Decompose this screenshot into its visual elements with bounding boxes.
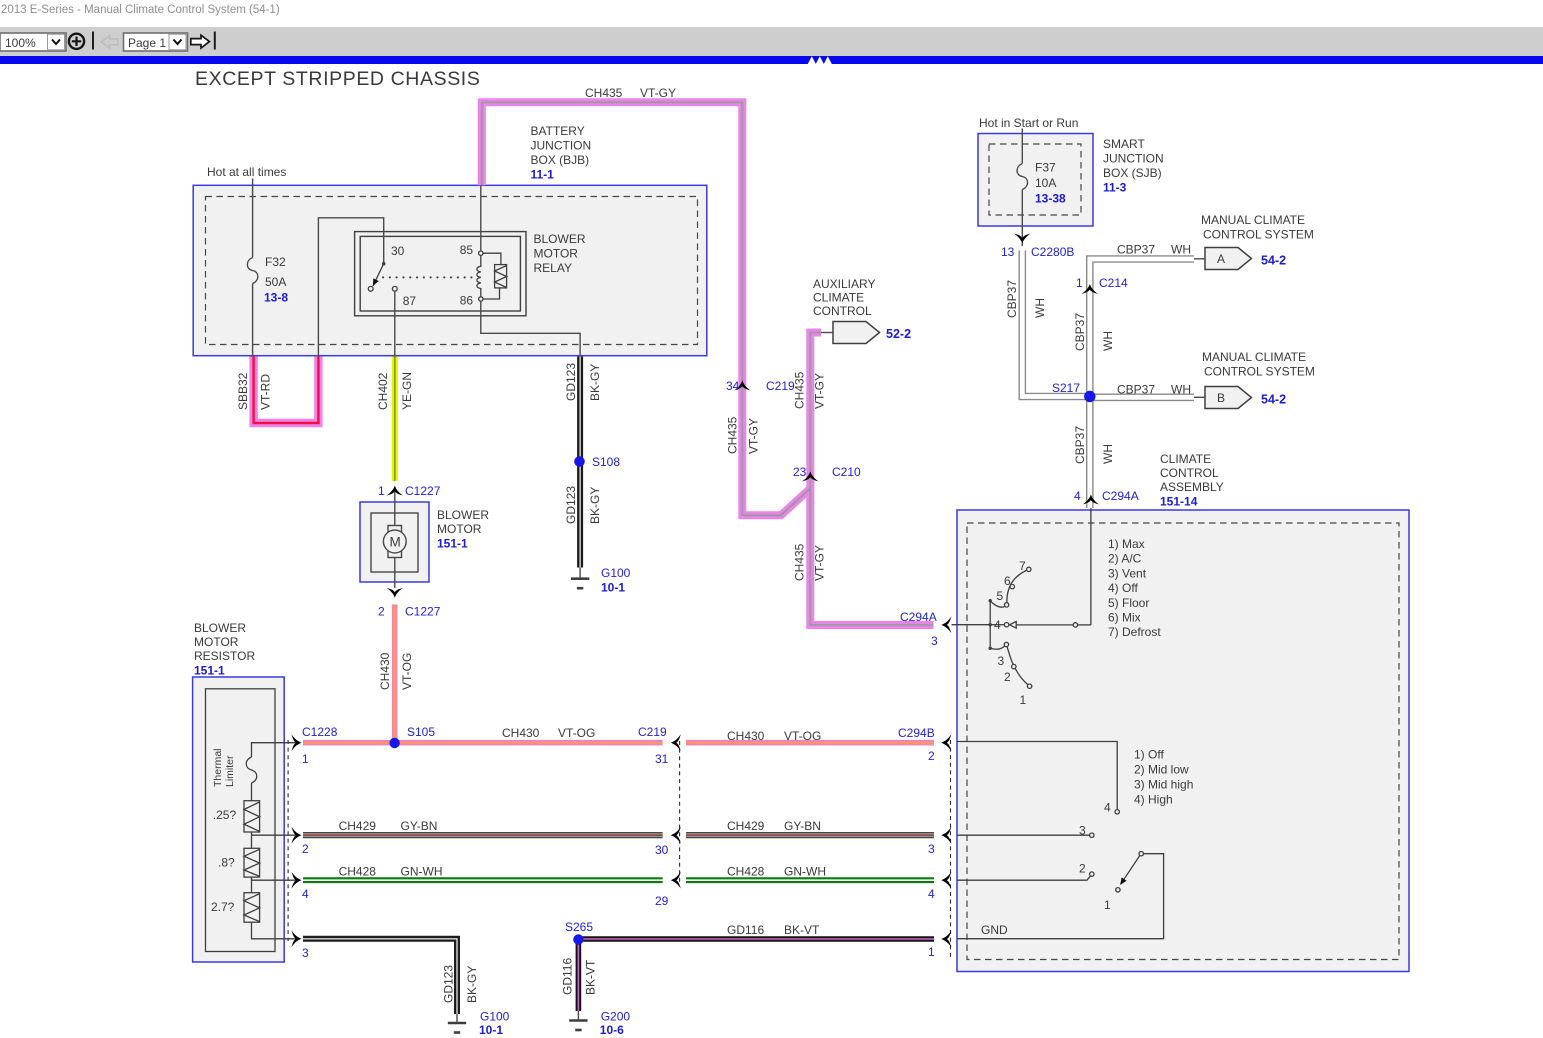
svg-text:10-6: 10-6 [600, 1023, 624, 1037]
label BLOWER MOTOR RESISTOR 151-1 [194, 621, 255, 678]
page combobox [124, 33, 188, 51]
fan switch contact 2 [1090, 872, 1094, 876]
viewer title bar [1, 4, 280, 16]
svg-text:C1227: C1227 [405, 605, 441, 619]
svg-text:WH: WH [1033, 298, 1047, 318]
connector arrow 1 C214 [1081, 284, 1098, 294]
rotated labels GD123 BK-GY bottom [442, 965, 479, 1003]
wire CH428 GN-WH C1228 to C219 [303, 877, 663, 883]
rotated labels CBP37 WH segment 2 [1073, 313, 1115, 351]
mode switch small terminal circle [1073, 623, 1077, 627]
label CH429 GY-BN segment 2 [727, 819, 821, 833]
svg-text:MOTOR: MOTOR [194, 635, 239, 649]
svg-text:1: 1 [928, 945, 935, 959]
svg-text:C2280B: C2280B [1031, 245, 1074, 259]
fan switch pin 2 line to contact 4 [957, 742, 1117, 810]
svg-text:34: 34 [726, 379, 740, 393]
wire GD123 BK-GY resistor pin 3 to G100 [303, 939, 457, 1014]
blue divider bar [0, 56, 1543, 64]
svg-text:C294B: C294B [898, 726, 935, 740]
mode switch arc 5-6-7 [1007, 570, 1027, 603]
svg-text:54-2: 54-2 [1261, 393, 1286, 407]
svg-text:4: 4 [302, 887, 309, 901]
label C1228 and pin numbers [302, 725, 338, 960]
relay suppression resistor connection 85 side [483, 253, 501, 264]
svg-text:VT-OG: VT-OG [558, 726, 595, 740]
wire CBP37 WH connector A to S217 through C214 [1090, 259, 1194, 397]
wire GD123 BK-GY relay 86 to G100 [577, 357, 583, 568]
blower motor box outline [360, 502, 429, 582]
fuse F32 feed line [252, 179, 254, 258]
svg-text:VT-RD: VT-RD [259, 374, 273, 410]
svg-text:GY-BN: GY-BN [401, 819, 438, 833]
svg-text:2: 2 [928, 749, 935, 763]
svg-text:3) Vent: 3) Vent [1108, 566, 1147, 580]
mode function list [1108, 537, 1161, 639]
svg-text:10A: 10A [1035, 176, 1056, 190]
label 13 C2280B [1001, 245, 1074, 259]
relay contact 87 [392, 286, 397, 291]
label CH430 VT-OG segment 2 [727, 729, 821, 743]
blower motor M circle [383, 530, 406, 553]
wire relay 87 to CH402 [394, 291, 396, 356]
svg-text:BK-VT: BK-VT [584, 959, 598, 995]
svg-text:BLOWER: BLOWER [437, 508, 489, 522]
svg-text:S105: S105 [407, 725, 435, 739]
svg-text:RESISTOR: RESISTOR [194, 649, 255, 663]
svg-text:.25?: .25? [213, 808, 237, 822]
svg-text:1: 1 [378, 484, 385, 498]
mode switch stem to contact 5 [990, 601, 1005, 607]
junction S105 [389, 738, 399, 748]
svg-text:3: 3 [928, 842, 935, 856]
connector arrow C219 pin 30 [671, 827, 681, 844]
connector arrow C1228 pin 3 [292, 930, 302, 947]
relay coil pin 86 contact [479, 297, 483, 301]
svg-text:C1227: C1227 [405, 484, 441, 498]
wire CH428 GN-WH C219 to C294B [686, 877, 934, 883]
svg-text:S265: S265 [565, 920, 593, 934]
svg-text:GD123: GD123 [442, 965, 456, 1003]
svg-text:2: 2 [302, 842, 309, 856]
smart junction box SJB outline [978, 134, 1093, 227]
svg-text:1: 1 [1104, 898, 1111, 912]
label BATTERY JUNCTION BOX [531, 124, 592, 182]
svg-text:CH430: CH430 [378, 652, 392, 690]
svg-text:MOTOR: MOTOR [534, 247, 579, 261]
wire CH430 VT-OG C1228 to C219 [303, 740, 663, 746]
svg-text:BK-GY: BK-GY [588, 487, 602, 524]
fan switch wiper arm [1121, 855, 1140, 884]
svg-text:C210: C210 [832, 465, 861, 479]
rotated label Thermal Limiter [212, 748, 236, 787]
svg-text:SMART: SMART [1103, 137, 1145, 151]
resistor R2 .8 ohm [244, 848, 260, 877]
mode switch output to C294A pin 3 [952, 624, 991, 626]
svg-text:11-3: 11-3 [1103, 181, 1127, 195]
fan switch contact 4 [1115, 810, 1119, 814]
svg-text:CH430: CH430 [502, 726, 540, 740]
svg-text:GN-WH: GN-WH [401, 865, 443, 879]
svg-text:CBP37: CBP37 [1117, 243, 1155, 257]
ground G100 under S108 [571, 568, 589, 589]
svg-text:31: 31 [655, 752, 669, 766]
svg-text:RELAY: RELAY [534, 261, 572, 275]
svg-text:GND: GND [981, 923, 1008, 937]
label CH430 VT-OG segment 1 [502, 726, 595, 740]
svg-text:MANUAL CLIMATE: MANUAL CLIMATE [1202, 350, 1306, 364]
label 4 C294A [1074, 489, 1139, 503]
wire CH429 GY-BN C1228 to C219 [303, 832, 663, 838]
battery junction box BJB outline [193, 185, 707, 355]
svg-text:WH: WH [1101, 444, 1115, 464]
connector arrow C1228 pin 2 [292, 827, 302, 844]
label CH429 GY-BN segment 1 [339, 819, 438, 833]
fan switch contact 3 [1090, 833, 1094, 837]
link R3 to pin 3 [252, 922, 298, 939]
wire CH430 VT-OG motor to S105 [392, 605, 398, 744]
wire CBP37 WH S217 to connector B [1090, 393, 1194, 401]
label C294A 3 [900, 610, 938, 648]
connector arrow C219 pin 29 [671, 872, 681, 889]
fuse F32 output line [252, 284, 254, 357]
relay U1 outline [355, 232, 526, 316]
svg-text:BATTERY: BATTERY [531, 124, 585, 138]
svg-text:GD123: GD123 [564, 486, 578, 524]
svg-text:CH435: CH435 [793, 371, 807, 409]
svg-text:GY-BN: GY-BN [784, 819, 821, 833]
rotated labels CH435 VT-GY below C210 [793, 543, 827, 581]
svg-text:CBP37: CBP37 [1073, 426, 1087, 464]
wire CH435 VT-GY branch from auxiliary climate control through C210 [810, 333, 821, 489]
mode switch contact 5 [1004, 603, 1008, 607]
fan switch position labels [1079, 801, 1111, 913]
mode switch contact 6 [1010, 584, 1014, 588]
rotated labels GD116 BK-VT [561, 958, 598, 995]
label fuse F37 [1035, 161, 1066, 206]
svg-text:BK-GY: BK-GY [465, 966, 479, 1003]
ground G100 under resistor pin 3 [448, 1014, 466, 1033]
relay pin numbers [391, 243, 473, 308]
mode switch stem to contact 3 [990, 646, 1004, 649]
fan switch pin 4 line [957, 876, 1090, 880]
svg-text:CONTROL SYSTEM: CONTROL SYSTEM [1203, 228, 1314, 242]
connector arrow 2 C1227 [386, 588, 403, 598]
connector arrow C294A pin 3 [941, 617, 951, 634]
svg-text:23: 23 [793, 465, 807, 479]
svg-text:4) Off: 4) Off [1108, 581, 1138, 595]
svg-text:WH: WH [1171, 243, 1191, 257]
resistor value labels [211, 808, 236, 914]
svg-text:CLIMATE: CLIMATE [1160, 452, 1211, 466]
svg-text:VT-OG: VT-OG [784, 729, 821, 743]
label CLIMATE CONTROL ASSEMBLY [1160, 452, 1224, 509]
svg-text:13-8: 13-8 [264, 291, 288, 305]
svg-text:CH428: CH428 [727, 865, 765, 879]
svg-text:151-1: 151-1 [437, 537, 468, 551]
label G100 10-1 right of S108 [601, 566, 631, 595]
svg-text:CH435: CH435 [793, 543, 807, 581]
wire SBB32 VT-RD fuse to relay pin 30 [254, 357, 319, 424]
svg-text:2) A/C: 2) A/C [1108, 552, 1142, 566]
svg-text:5) Floor: 5) Floor [1108, 596, 1149, 610]
back page arrow (disabled) [101, 36, 118, 48]
svg-text:C219: C219 [638, 725, 667, 739]
junction S108 [574, 456, 585, 467]
svg-text:EXCEPT STRIPPED CHASSIS: EXCEPT STRIPPED CHASSIS [195, 68, 480, 90]
label 1 C214 [1076, 276, 1128, 290]
svg-text:VT-OG: VT-OG [400, 653, 414, 690]
rotated labels CBP37 WH segment 1 [1005, 280, 1047, 318]
svg-text:1) Max: 1) Max [1108, 537, 1145, 551]
svg-text:5: 5 [997, 589, 1004, 603]
label 2 C1227 [378, 605, 441, 619]
svg-text:BOX (BJB): BOX (BJB) [531, 153, 590, 167]
svg-text:3: 3 [931, 634, 938, 648]
mode switch position labels [994, 559, 1027, 707]
svg-text:CH430: CH430 [727, 729, 765, 743]
svg-text:Hot at all times: Hot at all times [207, 165, 286, 179]
relay coil [477, 255, 481, 296]
svg-text:CH429: CH429 [339, 819, 377, 833]
svg-text:G100: G100 [480, 1010, 510, 1024]
svg-text:S217: S217 [1052, 381, 1080, 395]
connector arrow C294B pin 2 [941, 734, 951, 751]
svg-text:AUXILIARY: AUXILIARY [813, 277, 875, 291]
svg-text:13: 13 [1001, 245, 1015, 259]
svg-text:GD116: GD116 [561, 958, 575, 995]
connector arrow C294B pin 1 [941, 931, 951, 948]
svg-text:JUNCTION: JUNCTION [531, 139, 592, 153]
label CH435 VT-GY top [585, 86, 676, 100]
wire relay pin 30 to SBB32 [318, 218, 383, 356]
svg-text:C219: C219 [766, 379, 795, 393]
label CH428 GN-WH segment 1 [339, 865, 443, 879]
svg-text:CH429: CH429 [727, 819, 765, 833]
svg-text:151-1: 151-1 [194, 664, 225, 678]
svg-text:BLOWER: BLOWER [194, 621, 246, 635]
label SMART JUNCTION BOX [1103, 137, 1164, 195]
svg-text:WH: WH [1101, 331, 1115, 351]
link R1 to R2 and pin 2 tap [252, 832, 298, 848]
svg-text:S108: S108 [592, 455, 620, 469]
connector arrow B to 54-2 [1194, 387, 1252, 409]
label GD116 BK-VT segment [727, 923, 820, 937]
wire BJB entry to relay coil pin 85 [480, 185, 482, 251]
svg-text:BOX (SJB): BOX (SJB) [1103, 166, 1162, 180]
svg-text:C294A: C294A [900, 610, 937, 624]
wire GD116 BK-VT S265 to C294B pin 1 [580, 936, 934, 942]
svg-text:F37: F37 [1035, 161, 1056, 175]
svg-text:BK-VT: BK-VT [784, 923, 820, 937]
fuse F32 element [247, 258, 258, 284]
fan switch wiper top contact [1139, 852, 1143, 856]
blower motor brush block [388, 526, 402, 558]
connector arrow C294B pin 4 [941, 872, 951, 889]
svg-text:CONTROL: CONTROL [1160, 466, 1219, 480]
fan switch wiper bottom contact [1116, 888, 1120, 892]
svg-text:11-1: 11-1 [531, 168, 555, 182]
connector arrow 1 C1227 [386, 486, 403, 496]
svg-text:2) Mid low: 2) Mid low [1134, 763, 1189, 777]
thermal limiter element [246, 757, 257, 783]
relay switch arm [373, 264, 384, 286]
mode switch contact 4 [1004, 623, 1008, 627]
connector C219 dashed boundary [679, 741, 681, 882]
relay switch arm arrowhead [373, 278, 379, 286]
mode switch bracket [989, 601, 991, 649]
label AUXILIARY CLIMATE CONTROL [813, 277, 875, 318]
svg-text:10-1: 10-1 [479, 1023, 503, 1037]
svg-text:4) High: 4) High [1134, 793, 1173, 807]
svg-text:30: 30 [655, 843, 669, 857]
svg-text:CONTROL SYSTEM: CONTROL SYSTEM [1204, 365, 1315, 379]
svg-text:6) Mix: 6) Mix [1108, 611, 1141, 625]
wire GD116 BK-VT S265 to G200 [576, 939, 582, 1011]
svg-text:86: 86 [460, 294, 474, 308]
svg-text:WH: WH [1171, 383, 1191, 397]
connector C294B dashed boundary [950, 740, 952, 957]
svg-text:CLIMATE: CLIMATE [813, 291, 864, 305]
fan switch ground path to GND pin [957, 854, 1164, 939]
svg-text:54-2: 54-2 [1261, 254, 1286, 268]
svg-text:MOTOR: MOTOR [437, 522, 482, 536]
svg-text:CONTROL: CONTROL [813, 304, 872, 318]
fan switch wiper arrowhead [1120, 877, 1126, 885]
connector arrow 4 C294A [1083, 495, 1100, 505]
resistor R3 2.7 ohm [244, 893, 260, 923]
svg-text:CH428: CH428 [339, 865, 377, 879]
wire CH430 VT-OG C219 to C294B [686, 740, 934, 746]
connector arrow AUXILIARY CLIMATE CONTROL 52-2 [821, 322, 880, 344]
svg-text:C1228: C1228 [302, 725, 338, 739]
svg-text:1: 1 [1076, 276, 1083, 290]
svg-text:C294A: C294A [1102, 489, 1139, 503]
svg-text:VT-GY: VT-GY [747, 418, 761, 454]
wire CBP37 WH C2280B to S217 [1022, 251, 1090, 397]
mode switch contact 2 [1012, 664, 1016, 668]
label CBP37 WH row B [1117, 383, 1191, 397]
svg-text:B: B [1217, 391, 1225, 405]
connector arrow C1228 pin 1 [292, 734, 302, 751]
svg-text:.8?: .8? [218, 856, 235, 870]
svg-text:Thermal: Thermal [212, 748, 224, 787]
svg-text:50A: 50A [265, 275, 286, 289]
relay contact 30 side [368, 286, 373, 291]
svg-text:29: 29 [655, 894, 669, 908]
connector arrow C294B pin 3 [941, 827, 951, 844]
svg-text:30: 30 [391, 244, 405, 258]
toolbar background [0, 27, 1543, 56]
label MANUAL CLIMATE CONTROL SYSTEM A [1201, 213, 1314, 242]
svg-text:1: 1 [302, 752, 309, 766]
svg-text:A: A [1217, 252, 1225, 266]
svg-text:4: 4 [994, 618, 1001, 632]
svg-text:F32: F32 [265, 255, 286, 269]
junction S265 [573, 934, 583, 944]
svg-text:6: 6 [1004, 574, 1011, 588]
svg-text:3: 3 [1079, 824, 1086, 838]
svg-text:VT-GY: VT-GY [813, 373, 827, 409]
svg-text:YE-GN: YE-GN [400, 372, 414, 410]
blower motor resistor box outline [193, 677, 285, 962]
svg-text:JUNCTION: JUNCTION [1103, 152, 1164, 166]
rotated labels GD123 BK-GY lower segment [564, 486, 602, 524]
relay suppression resistor body [495, 265, 507, 288]
label CH428 GN-WH segment 2 [727, 865, 826, 879]
thermal limiter top rail to pin 1 [252, 743, 298, 757]
svg-text:VT-GY: VT-GY [813, 545, 827, 581]
svg-text:CH435: CH435 [726, 416, 740, 454]
svg-text:4: 4 [928, 887, 935, 901]
svg-text:CH402: CH402 [376, 372, 390, 410]
fuse F37 element [1017, 164, 1028, 190]
svg-text:G100: G100 [601, 566, 631, 580]
svg-text:87: 87 [403, 294, 417, 308]
svg-text:G200: G200 [601, 1010, 631, 1024]
mode switch arc 3-2-1 [1007, 647, 1028, 685]
svg-text:13-38: 13-38 [1035, 192, 1066, 206]
label 1 C1227 [378, 484, 441, 498]
label fuse F32 [264, 255, 288, 305]
connector arrow C219 pin 31 [671, 734, 681, 751]
svg-text:100%: 100% [5, 36, 36, 50]
wire CH435 VT-GY main run from BJB to C294A [482, 102, 934, 625]
svg-text:2: 2 [378, 605, 385, 619]
relay switch pivot [382, 262, 386, 266]
svg-text:52-2: 52-2 [886, 327, 911, 341]
zoom-in button [69, 34, 84, 49]
fan speed list [1134, 748, 1193, 807]
svg-text:CBP37: CBP37 [1005, 280, 1019, 318]
connector C1228 dashed boundary [287, 740, 289, 941]
mode switch bracket nubs [989, 599, 992, 650]
forward page arrow [191, 35, 210, 48]
rotated labels CH402 YE-GN [376, 372, 414, 410]
svg-text:Page 1: Page 1 [128, 36, 166, 50]
svg-text:4: 4 [1074, 489, 1081, 503]
scroll triangles on blue bar [808, 56, 833, 64]
connector arrow 13 C2280B [1014, 234, 1031, 244]
fuse F37 output line [1021, 190, 1023, 247]
label BLOWER MOTOR 151-1 [437, 508, 489, 551]
svg-text:10-1: 10-1 [601, 581, 625, 595]
svg-text:SBB32: SBB32 [236, 372, 250, 410]
CCA feed line C294A to mode switch [1090, 508, 1092, 625]
label C219 and pin numbers [638, 725, 669, 908]
svg-text:3: 3 [302, 946, 309, 960]
svg-text:CBP37: CBP37 [1073, 313, 1087, 351]
svg-text:1) Off: 1) Off [1134, 748, 1164, 762]
svg-text:3: 3 [998, 654, 1005, 668]
resistor R1 .25 ohm [244, 801, 260, 832]
svg-text:GN-WH: GN-WH [784, 865, 826, 879]
toolbar separator 1 [92, 32, 94, 50]
motor output wire [394, 558, 396, 589]
label 23 C210 [793, 465, 861, 479]
svg-text:4: 4 [1104, 801, 1111, 815]
svg-text:ASSEMBLY: ASSEMBLY [1160, 480, 1224, 494]
wire CH429 GY-BN C219 to C294B [686, 832, 934, 838]
mode switch feed elbow [1077, 624, 1091, 626]
svg-text:Limiter: Limiter [224, 755, 236, 787]
wire CH402 YE-GN relay 87 to blower motor [392, 357, 398, 482]
connector arrow 34 C219 [734, 381, 751, 391]
svg-text:Hot in Start or Run: Hot in Start or Run [979, 116, 1078, 130]
link thermal limiter to resistor R1 [251, 783, 253, 801]
svg-text:BLOWER: BLOWER [534, 232, 586, 246]
mode switch wiper line [1016, 624, 1073, 626]
